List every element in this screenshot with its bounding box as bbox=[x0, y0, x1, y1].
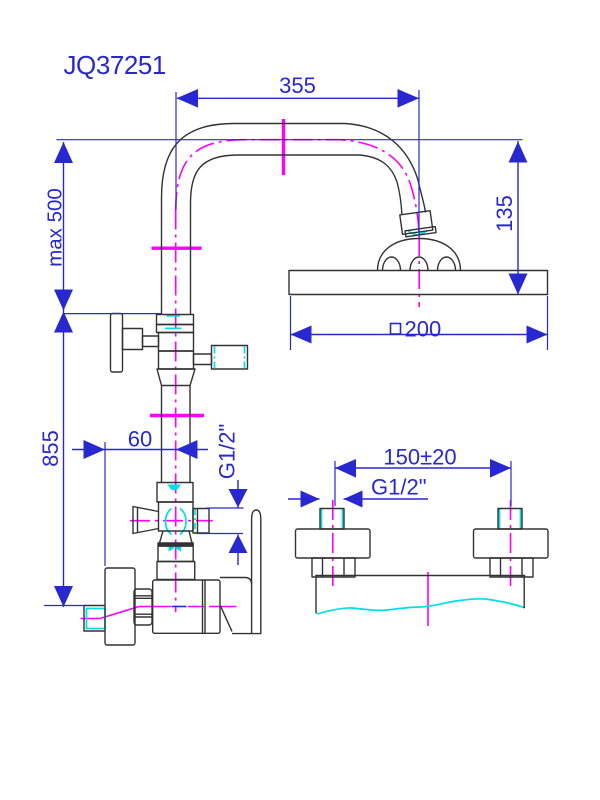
svg-text:JQ37251: JQ37251 bbox=[64, 50, 166, 80]
svg-text:60: 60 bbox=[128, 427, 152, 452]
svg-text:max 500: max 500 bbox=[44, 188, 67, 267]
svg-text:135: 135 bbox=[492, 195, 517, 232]
svg-text:355: 355 bbox=[279, 73, 316, 98]
svg-text:150±20: 150±20 bbox=[383, 445, 456, 470]
svg-text:855: 855 bbox=[38, 430, 63, 467]
svg-text:200: 200 bbox=[405, 317, 442, 342]
svg-text:G1/2": G1/2" bbox=[371, 475, 427, 500]
svg-text:G1/2": G1/2" bbox=[215, 424, 240, 480]
